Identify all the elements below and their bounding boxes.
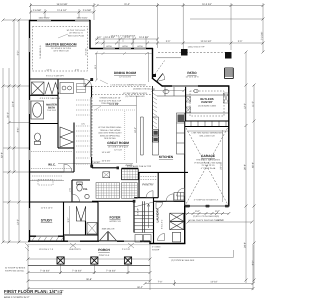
svg-text:6'-0 X 3'-0 TUB DECK: 6'-0 X 3'-0 TUB DECK	[40, 97, 61, 100]
hall tile patch right	[122, 183, 138, 199]
svg-text:WDW: WDW	[137, 45, 142, 48]
wall stairs right / laundry left	[153, 198, 155, 244]
svg-text:62'-8": 62'-8"	[1, 152, 4, 158]
stairs treads	[134, 201, 154, 232]
svg-text:2'-6 5/8": 2'-6 5/8"	[33, 9, 42, 12]
svg-text:7'-0": 7'-0"	[158, 281, 163, 284]
butlers fridge right	[224, 93, 229, 103]
wall pr area	[72, 179, 90, 181]
svg-text:CROWN MOLD AT 10': CROWN MOLD AT 10'	[100, 97, 121, 100]
garage left wall lower	[184, 206, 186, 244]
svg-text:1 HR FIRE RATED SEPARATION: 1 HR FIRE RATED SEPARATION	[191, 132, 223, 135]
svg-text:AT THE DN GRND WALL: AT THE DN GRND WALL	[98, 126, 122, 129]
svg-text:2'-8 TYP: 2'-8 TYP	[122, 248, 131, 251]
svg-text:10'-0 3/4": 10'-0 3/4"	[105, 36, 115, 39]
dim top master row2	[30, 11, 94, 13]
bifold closet doors band	[45, 83, 59, 95]
wall closet bottom vestibule	[64, 234, 99, 236]
porch edge line	[28, 264, 150, 266]
svg-text:3068 DBL DR: 3068 DBL DR	[102, 228, 115, 231]
svg-text:STUDY: STUDY	[41, 219, 53, 223]
dining interior dim	[95, 52, 98, 82]
wall pantry bottom	[134, 197, 158, 199]
door arc kitchen to mud	[166, 194, 174, 202]
interior walls	[30, 79, 229, 244]
left wall	[29, 20, 31, 242]
dashed wic shelving	[31, 152, 72, 169]
niche hatch great room bottom	[103, 172, 110, 178]
kitchen island grid	[122, 169, 139, 180]
svg-text:STOOP: STOOP	[152, 248, 160, 251]
svg-text:DINING ROOM: DINING ROOM	[114, 71, 136, 75]
svg-text:46'-2": 46'-2"	[137, 286, 143, 289]
butlers counters	[186, 89, 228, 113]
svg-text:GREAT ROOM: GREAT ROOM	[107, 141, 129, 145]
wall island back	[122, 167, 139, 169]
wall hall bottom / study top	[30, 201, 64, 203]
svg-text:12'-4": 12'-4"	[46, 69, 52, 72]
svg-text:PANTRY: PANTRY	[142, 183, 154, 187]
svg-text:PANTRY: PANTRY	[201, 100, 212, 104]
wall foyer left	[97, 202, 99, 241]
garage door 2	[210, 205, 226, 207]
svg-text:11'-0 X 12'-0: 11'-0 X 12'-0	[41, 207, 53, 210]
wall garage left upper / kitchen right	[184, 121, 186, 206]
window bath left	[29, 100, 31, 114]
kitchen rear counter	[157, 87, 185, 96]
svg-text:CONC FLR: CONC FLR	[99, 254, 110, 257]
svg-text:16'-4 5/8 X 18'-0 CLG: 16'-4 5/8 X 18'-0 CLG	[108, 145, 128, 148]
laundry left jog	[149, 241, 151, 244]
dashed great room column line	[91, 88, 93, 166]
svg-text:TRIM ALL THE HOME: TRIM ALL THE HOME	[100, 129, 121, 132]
corner post angled wall	[153, 74, 156, 77]
svg-text:1 1/2 X 9 1/4 LVL WRAPD FLUSH: 1 1/2 X 9 1/4 LVL WRAPD FLUSH BM	[110, 83, 145, 86]
svg-text:8'-0 X 1'-6 DR OPT: 8'-0 X 1'-6 DR OPT	[46, 75, 65, 78]
garage door openings	[190, 205, 225, 207]
brick step marks left	[25, 243, 29, 251]
interior dim horizontal great room	[92, 105, 137, 107]
wall pr left	[71, 180, 73, 202]
interior dim horizontal hall2	[30, 180, 64, 182]
svg-text:4" STEP DN TO GAR FLR: 4" STEP DN TO GAR FLR	[194, 199, 219, 202]
window study bay	[36, 235, 58, 237]
svg-text:18'-0": 18'-0"	[134, 127, 137, 133]
svg-text:7'-10 3/4": 7'-10 3/4"	[106, 270, 116, 273]
master right wall upper	[89, 20, 91, 49]
wall master bedroom bottom	[30, 78, 84, 80]
svg-text:4" CONC: 4" CONC	[152, 246, 161, 249]
svg-text:16'-10 5/8": 16'-10 5/8"	[57, 3, 68, 6]
window hall left	[29, 150, 31, 160]
toilet bath	[35, 133, 41, 145]
svg-text:BASE 17-0 WO'S 15'-0": BASE 17-0 WO'S 15'-0"	[4, 296, 30, 299]
svg-text:11'-9 1/4": 11'-9 1/4"	[57, 9, 67, 12]
master bath tub	[31, 101, 44, 119]
svg-text:(2) STOOP BY BUILDER: (2) STOOP BY BUILDER	[171, 259, 195, 262]
window rear	[172, 85, 198, 87]
dotted beam horizontal kitchen	[92, 109, 136, 111]
room label DINING ROOM	[114, 71, 136, 78]
wall butlers bottom	[185, 120, 229, 122]
angled wall to rear	[152, 78, 163, 86]
svg-text:2'-8 3/4": 2'-8 3/4"	[92, 161, 101, 164]
door arc pantry	[146, 191, 153, 198]
svg-text:GARAGE: GARAGE	[201, 154, 215, 158]
jamb block great room opening bottom	[90, 165, 93, 168]
pantry shelves dashed	[141, 177, 158, 180]
svg-text:19'-0 3/4": 19'-0 3/4"	[202, 3, 212, 6]
dining inner dim row	[95, 52, 152, 55]
svg-text:(2) OPEN SHELVES: (2) OPEN SHELVES	[125, 95, 145, 98]
door arc mud to garage	[177, 188, 185, 196]
mud lockers	[174, 193, 184, 201]
svg-text:(1'-0"): (1'-0")	[124, 36, 130, 39]
top right frame lines	[190, 18, 263, 20]
dashed tray ceiling master bedroom	[33, 27, 88, 72]
svg-text:23'-10": 23'-10"	[220, 162, 223, 169]
dashed patio roof diagonal	[155, 60, 165, 74]
svg-text:3'-2 3/4: 3'-2 3/4	[85, 48, 88, 56]
kitchen tall cabinet hatch	[153, 93, 158, 128]
svg-text:3'-0": 3'-0"	[166, 40, 171, 43]
svg-text:2'-0": 2'-0"	[75, 69, 79, 72]
room label BUTLERS PANTRY	[198, 97, 216, 107]
svg-text:12X12 COLS TYP: 12X12 COLS TYP	[188, 46, 205, 49]
room label MASTER BATH	[46, 104, 57, 113]
svg-text:7'-2 3/4": 7'-2 3/4"	[261, 32, 264, 41]
dimension hairlines	[3, 3, 263, 290]
butlers cabinet hatch left 1	[186, 97, 191, 103]
window front left of door	[68, 240, 80, 242]
stair cubbies below	[135, 235, 151, 243]
kitchen range boxes	[153, 130, 159, 142]
svg-text:8X8 POSTS: 8X8 POSTS	[69, 248, 81, 251]
kitchen right cabinets	[177, 113, 185, 154]
porch post 2	[91, 257, 98, 264]
door arc laundry	[156, 202, 163, 209]
svg-text:5'-10 5/8 CLG: 5'-10 5/8 CLG	[39, 45, 42, 58]
front door opening	[99, 240, 117, 242]
porch post 3	[124, 257, 131, 264]
svg-text:FIRST FLOOR PLAN: 1/4"=1': FIRST FLOOR PLAN: 1/4"=1'	[4, 289, 63, 294]
svg-text:(2) 9'0 X 7'0 OH GAR DR(S): (2) 9'0 X 7'0 OH GAR DR(S)	[193, 215, 220, 218]
svg-text:31'-0": 31'-0"	[124, 3, 130, 6]
svg-text:PATIO: PATIO	[187, 71, 197, 75]
svg-text:21'-4 X 23'-10: 21'-4 X 23'-10	[202, 164, 216, 167]
tick marks	[2, 4, 265, 290]
patio inner dim	[153, 90, 184, 92]
dashed ceiling butlers pantry	[190, 91, 224, 116]
svg-text:(2) 36 BASE CAB W/ TOP: (2) 36 BASE CAB W/ TOP	[127, 165, 152, 168]
wall garage top	[185, 126, 229, 128]
wall master suite right lower	[91, 157, 93, 168]
rear wall	[162, 85, 229, 87]
svg-text:AT STOOP W/ BRICK: AT STOOP W/ BRICK	[5, 267, 26, 270]
svg-text:WDW: WDW	[106, 45, 111, 48]
stairs arrow	[147, 204, 149, 228]
stoop line	[169, 257, 234, 259]
wall stairs left	[133, 201, 135, 232]
garage door dim line	[185, 213, 228, 215]
dim top master row1	[30, 5, 94, 7]
svg-text:9'-2": 9'-2"	[17, 51, 20, 56]
svg-text:30'-0": 30'-0"	[7, 112, 10, 118]
svg-text:5040 WDW: 5040 WDW	[77, 16, 88, 19]
wall master suite right mid thin	[90, 97, 92, 157]
svg-text:26'-8": 26'-8"	[244, 164, 247, 170]
bottom extension verticals	[27, 244, 29, 290]
svg-text:10'-0 3/4": 10'-0 3/4"	[102, 160, 111, 163]
room label STUDY	[41, 219, 53, 223]
wall pantry left	[138, 172, 140, 197]
svg-text:12'-10 3/4": 12'-10 3/4"	[201, 40, 212, 43]
hall linen dashes	[32, 176, 62, 180]
wall great room bottom	[92, 167, 118, 169]
svg-text:2'-6 5/8": 2'-6 5/8"	[83, 9, 92, 12]
patio steps	[225, 68, 234, 79]
svg-text:5'-0": 5'-0"	[67, 218, 70, 223]
patio post 2	[225, 52, 232, 59]
interior dim vertical dining	[148, 52, 150, 82]
butlers cabinet hatch left 2	[186, 107, 191, 113]
svg-text:STEPS SEE DETAIL: STEPS SEE DETAIL	[5, 270, 25, 273]
svg-text:7'-10 3/4": 7'-10 3/4"	[72, 270, 82, 273]
window study left	[29, 208, 31, 230]
hall tile patch left	[96, 183, 120, 199]
dim dining row	[95, 42, 263, 44]
window master left	[29, 38, 31, 52]
svg-text:21'-4": 21'-4"	[12, 101, 15, 107]
svg-text:4" CONC SLAB: 4" CONC SLAB	[201, 167, 216, 170]
door arc rear patio	[157, 74, 165, 82]
bay wall hatch ticks	[32, 237, 64, 241]
wall study right	[63, 202, 65, 237]
note master tray	[58, 29, 86, 38]
svg-text:16'-4 5/8": 16'-4 5/8"	[102, 151, 111, 154]
dining window extension verticals	[103, 37, 105, 49]
room label MASTER BEDROOM	[46, 43, 77, 53]
wall bath top	[30, 94, 58, 96]
garage door jambs hatched	[185, 205, 228, 208]
wall mud/laundry divider	[154, 200, 185, 202]
kitchen cabinet run right of great room	[152, 117, 158, 155]
svg-text:36'-8": 36'-8"	[86, 278, 92, 281]
door arc wic	[64, 164, 72, 172]
jamb block hall niche	[117, 167, 120, 170]
dashed garage X brace 1	[186, 128, 228, 204]
svg-text:(2) 36 BASE CABS: (2) 36 BASE CABS	[198, 104, 216, 107]
vestibule closet hatch	[87, 223, 97, 235]
svg-text:16'-4 5/8": 16'-4 5/8"	[109, 103, 119, 106]
svg-text:FOYER: FOYER	[110, 216, 122, 220]
svg-text:5'-8 X 9'-2: 5'-8 X 9'-2	[161, 219, 164, 229]
shower hatch box	[32, 82, 45, 95]
svg-text:10'-0 3/4": 10'-0 3/4"	[139, 36, 149, 39]
dashed great room beam 1	[92, 86, 152, 88]
wall pr bottom	[64, 201, 98, 203]
svg-text:SEE ELEC PLAN: SEE ELEC PLAN	[68, 34, 85, 37]
interior dim horizontal garage	[187, 130, 228, 132]
jamb block great room opening top	[90, 78, 93, 81]
note dining windows	[111, 35, 136, 43]
svg-text:10'-0 TRAY CLG: 10'-0 TRAY CLG	[53, 50, 69, 53]
svg-text:(2) 5040 X 3'0 MULLED: (2) 5040 X 3'0 MULLED	[133, 88, 155, 91]
jamb block foyer wall end	[133, 200, 136, 203]
svg-text:12'-10 X 10'-0: 12'-10 X 10'-0	[186, 75, 200, 78]
room label PATIO	[186, 71, 200, 78]
svg-text:P.R.: P.R.	[83, 188, 88, 191]
left dim horizontals	[3, 19, 30, 21]
svg-text:SEE DETAIL: SEE DETAIL	[104, 137, 117, 140]
vanity two sinks	[60, 83, 74, 94]
svg-text:WDW: WDW	[122, 45, 127, 48]
patio slab edge	[156, 57, 181, 59]
svg-text:AND INTO SHRD QUIET: AND INTO SHRD QUIET	[98, 132, 122, 135]
svg-text:IF GOLDEN WILL SEE AWAY: IF GOLDEN WILL SEE AWAY	[194, 161, 222, 164]
room label GREAT ROOM	[107, 141, 129, 151]
wall master suite right upper	[91, 86, 93, 97]
note garage top	[191, 132, 223, 138]
note great room top	[95, 97, 122, 111]
note great room mid	[98, 126, 122, 140]
dotted beam line kitchen/great	[124, 111, 126, 161]
window dining 3	[134, 48, 146, 50]
svg-text:10'-0 3/4 X 7'-0: 10'-0 3/4 X 7'-0	[39, 248, 54, 251]
svg-text:KITCHEN: KITCHEN	[159, 155, 174, 159]
svg-text:AREA W/ OPEN RAIL: AREA W/ OPEN RAIL	[100, 134, 121, 137]
svg-text:24'-8": 24'-8"	[244, 242, 247, 248]
svg-text:WOOD FLR: WOOD FLR	[109, 220, 121, 223]
dashed patio roof edge	[158, 52, 227, 54]
svg-text:THE BRICK SEPARATES: THE BRICK SEPARATES	[196, 159, 220, 162]
svg-text:7'-10 3/4": 7'-10 3/4"	[40, 270, 50, 273]
room label FOYER	[109, 216, 121, 223]
svg-text:5040 WDW: 5040 WDW	[39, 16, 50, 19]
svg-text:13'-2": 13'-2"	[17, 219, 20, 225]
wall bath/wic divider	[30, 123, 58, 125]
svg-text:42" REF SPACE W/ WTR: 42" REF SPACE W/ WTR	[123, 92, 147, 95]
svg-text:CLG W/ 2 PC BUILT UP: CLG W/ 2 PC BUILT UP	[99, 99, 122, 102]
svg-text:8'-4": 8'-4"	[17, 128, 20, 133]
windows gray	[30, 21, 199, 242]
closet double doors master	[60, 127, 73, 147]
outer walls	[28, 20, 229, 244]
svg-text:12'-2": 12'-2"	[244, 103, 247, 109]
svg-text:PORCH: PORCH	[98, 248, 110, 252]
interior dim vertical kitchen/great	[136, 96, 138, 163]
study bay side	[63, 236, 65, 241]
wall kitchen/hall bottom	[138, 171, 188, 173]
svg-text:16 R UP: 16 R UP	[137, 208, 140, 216]
right dim verticals	[245, 52, 247, 283]
interior dim horizontal hall	[58, 163, 133, 165]
porch post 1	[57, 257, 64, 264]
closet strip rod dashes	[76, 100, 90, 164]
svg-text:10' CLG TYP U.N.O.: 10' CLG TYP U.N.O.	[66, 29, 85, 32]
wall wic bottom	[30, 171, 74, 173]
window master top 1	[37, 20, 51, 22]
garage top wall studs	[191, 122, 226, 127]
extension verticals top	[30, 3, 32, 20]
laundry bottom wall	[150, 243, 186, 245]
study bay front wall	[30, 235, 65, 237]
window master top 2	[75, 20, 89, 22]
wall kitchen tall cabinet left	[151, 86, 153, 129]
window dining 1	[103, 48, 115, 50]
room label PORCH	[98, 248, 110, 252]
attic access dashed	[38, 180, 53, 186]
svg-text:TILE FLR: TILE FLR	[47, 109, 56, 112]
svg-text:LIN: LIN	[81, 123, 85, 126]
rear door leaf	[157, 74, 163, 82]
door arcs	[64, 74, 185, 209]
wall pantry right	[157, 172, 159, 197]
svg-text:LAUNDRY: LAUNDRY	[156, 208, 160, 222]
svg-text:23'-10": 23'-10"	[216, 219, 223, 222]
front door double	[100, 232, 117, 241]
master top wall	[29, 20, 91, 22]
window dining 2	[119, 48, 131, 50]
left dim verticals	[2, 68, 4, 242]
svg-text:3'-0": 3'-0"	[238, 40, 243, 43]
wall closet strip right	[73, 123, 75, 173]
svg-text:12' CLG: 12' CLG	[114, 148, 122, 151]
room label GARAGE	[194, 154, 222, 170]
svg-text:9'-0": 9'-0"	[195, 210, 200, 213]
garage door wall	[185, 205, 229, 207]
window front right	[124, 240, 140, 242]
dining right wall	[152, 48, 154, 79]
dining top wall	[90, 48, 154, 50]
dashed great room beam 2	[92, 94, 153, 96]
svg-text:4'-0": 4'-0"	[97, 36, 102, 39]
porch window swing marks	[70, 243, 134, 248]
svg-text:MASTER BEDROOM: MASTER BEDROOM	[46, 43, 77, 47]
linen shelves band	[77, 84, 86, 93]
patio post 1	[181, 49, 188, 56]
kitchen island counter left	[141, 117, 144, 155]
interior dim vertical garage	[222, 130, 224, 202]
bottom dim rows	[28, 258, 150, 260]
right wall	[228, 86, 230, 207]
interior dim vertical foyer right	[69, 206, 71, 234]
svg-text:WALL AND CLG: WALL AND CLG	[199, 134, 215, 137]
wall vestibule divider	[85, 221, 87, 235]
laundry washer dryer	[170, 213, 184, 242]
front wall main	[28, 240, 150, 242]
door arc pr	[72, 194, 80, 202]
wall butlers left	[185, 86, 187, 121]
dashed garage X brace 2	[186, 128, 228, 204]
door arc laundry bottom	[158, 234, 165, 241]
svg-text:12'-4 X 13'-0: 12'-4 X 13'-0	[119, 75, 131, 78]
svg-text:W.I.C.: W.I.C.	[48, 162, 56, 166]
master door leaf	[85, 80, 91, 87]
study double doors	[76, 206, 85, 221]
wall wic top	[58, 147, 74, 149]
svg-text:15'-10 5/8 X 14'-0 3/4: 15'-10 5/8 X 14'-0 3/4	[51, 47, 72, 50]
title FIRST FLOOR PLAN	[4, 289, 63, 299]
svg-text:11'-2": 11'-2"	[252, 101, 255, 107]
svg-text:40'-4": 40'-4"	[252, 162, 255, 168]
svg-text:9'-0": 9'-0"	[215, 210, 220, 213]
door arc bedroom entry	[84, 79, 92, 87]
svg-text:14'-10": 14'-10"	[210, 281, 217, 284]
svg-text:8'-2": 8'-2"	[252, 261, 255, 266]
wall bath right	[57, 79, 59, 148]
svg-text:W/ TRAY 11'-0: W/ TRAY 11'-0	[69, 32, 83, 35]
